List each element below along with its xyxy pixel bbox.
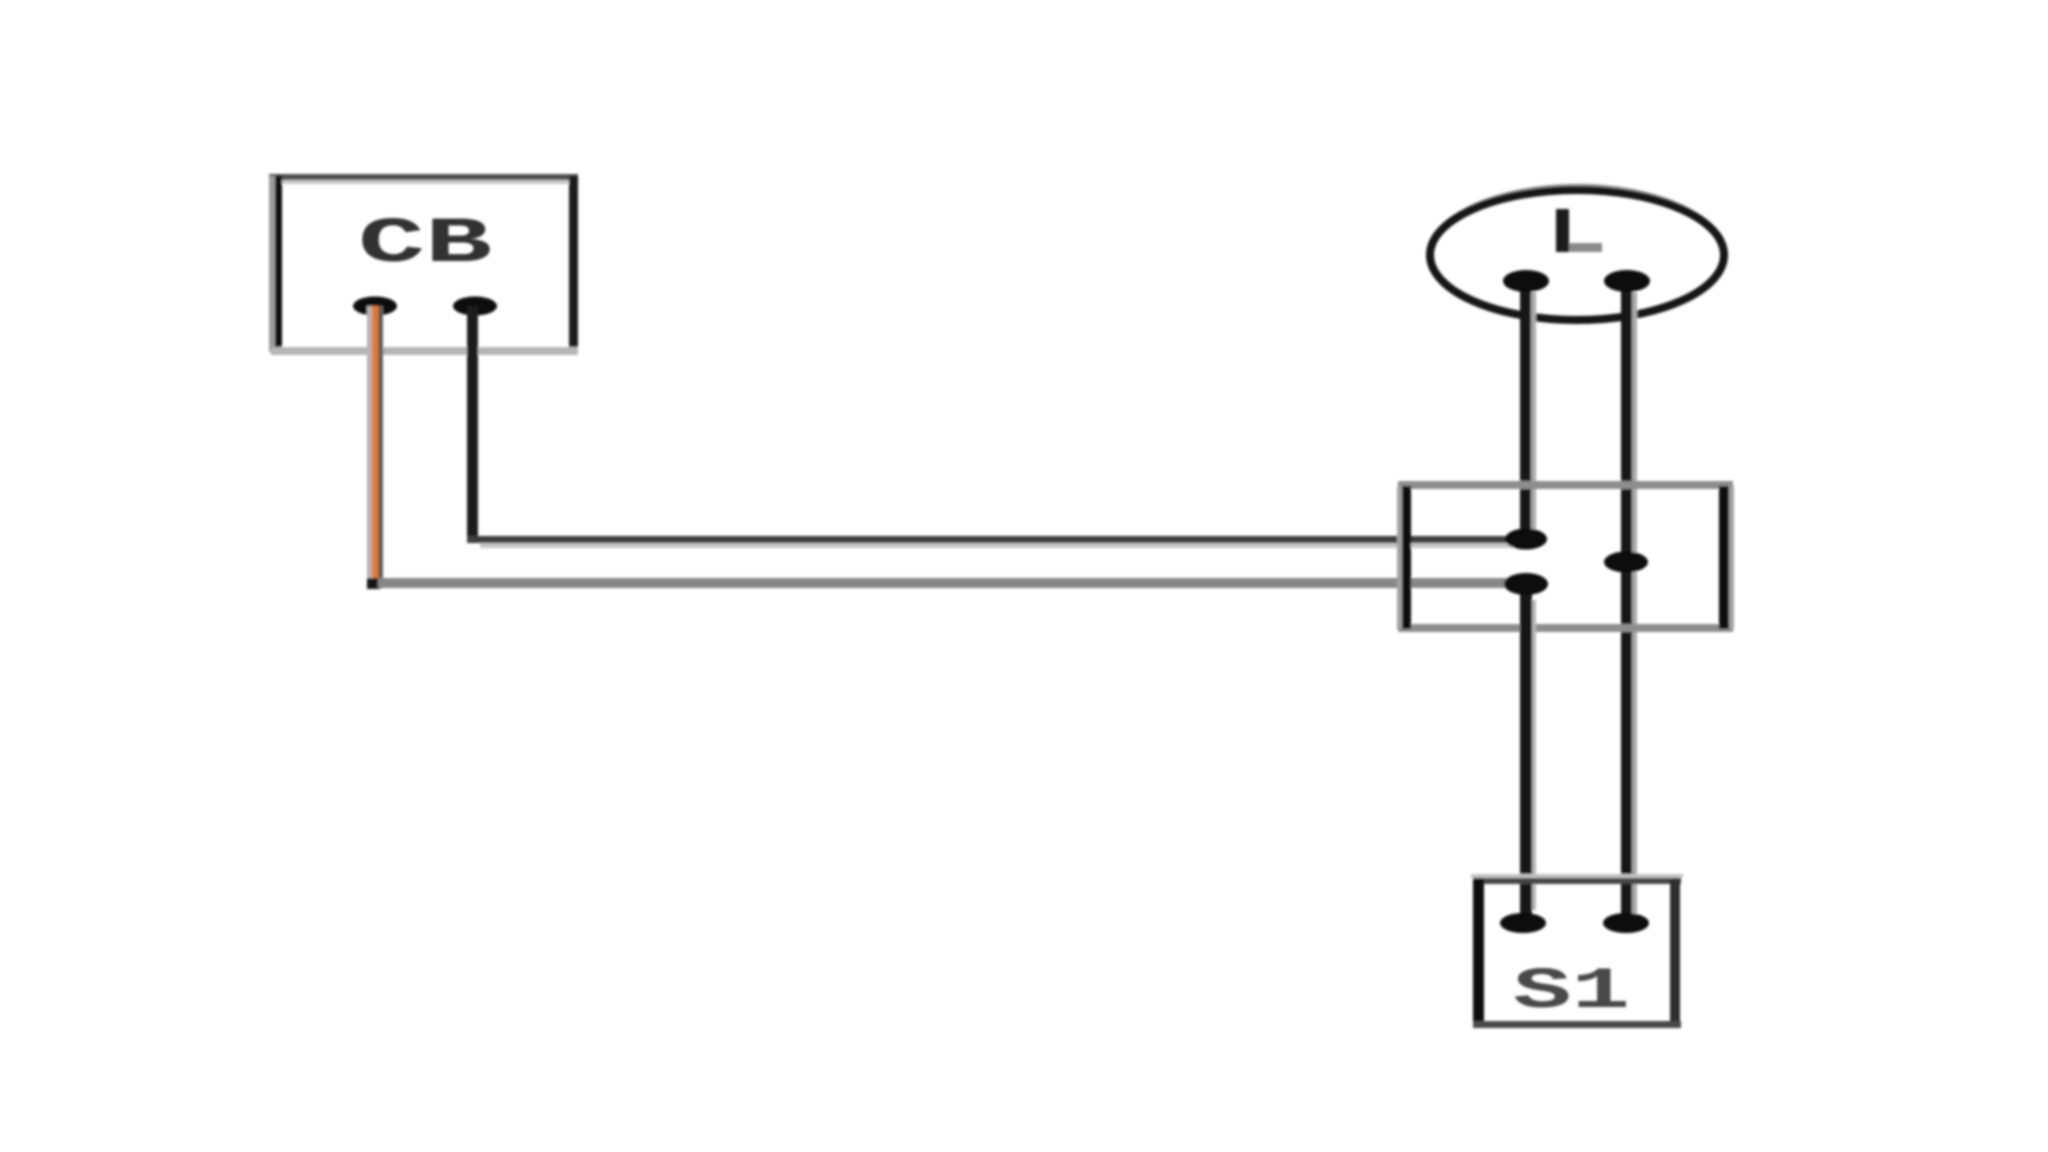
svg-text:CB: CB: [358, 209, 492, 281]
svg-text:S1: S1: [1513, 960, 1630, 1025]
